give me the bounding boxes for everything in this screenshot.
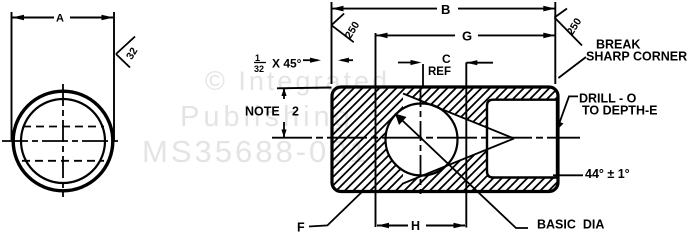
svg-text:REF: REF — [428, 66, 451, 78]
dim G line — [376, 34, 456, 36]
DRILL-O leader — [558, 96, 579, 128]
vertical centerline — [62, 84, 64, 197]
svg-text:H: H — [411, 219, 420, 233]
dim B arrows — [332, 6, 344, 12]
NOTE 2 lower arrow — [283, 122, 285, 137]
dim A line — [12, 17, 54, 19]
body hatched section — [332, 87, 558, 192]
ball (basic dia) circle — [386, 104, 458, 176]
cone cavity (drill point 44deg) — [403, 94, 514, 184]
svg-text:G: G — [462, 29, 472, 44]
svg-text:TO DEPTH-E: TO DEPTH-E — [582, 104, 657, 118]
dim A extension line right — [113, 12, 115, 140]
svg-text:44° ± 1°: 44° ± 1° — [585, 167, 630, 181]
dim A arrow left — [12, 15, 24, 21]
cone line lower — [403, 139, 514, 184]
dim H line left — [377, 225, 408, 227]
dim A arrow right — [102, 15, 114, 21]
dim B line — [332, 8, 438, 10]
surface finish 250 check left — [331, 14, 353, 43]
BREAK SHARP CORNER leader — [558, 57, 586, 78]
dim A extension line left — [11, 12, 13, 140]
cone line upper — [403, 94, 514, 139]
hidden line (drill hole top) — [23, 126, 104, 128]
svg-text:NOTE: NOTE — [245, 105, 280, 119]
svg-text:1: 1 — [255, 53, 260, 63]
horizontal centerline — [2, 140, 121, 142]
dim C REF arrow left — [398, 62, 418, 64]
dim G extension left (runs through body to H dim) — [375, 33, 377, 227]
dim C REF arrow right — [466, 62, 493, 64]
dim H line right — [426, 225, 465, 227]
svg-text:C: C — [442, 52, 451, 66]
svg-text:X 45°: X 45° — [272, 57, 302, 71]
chamfer arrow right-pointing — [303, 59, 318, 61]
surface finish 32 check — [116, 37, 135, 68]
44 deg leader — [553, 174, 583, 176]
NOTE 2 top line — [277, 87, 332, 90]
svg-text:SHARP CORNER: SHARP CORNER — [586, 50, 687, 64]
hidden line (drill hole bottom) — [22, 160, 104, 162]
NOTE 2 upper arrow — [283, 88, 285, 99]
vertical centerline (ball) — [420, 87, 422, 194]
svg-text:BASIC DIA: BASIC DIA — [537, 218, 604, 232]
drilled hole O — [487, 100, 557, 178]
dim C extension right (runs through body to H dim) — [465, 63, 467, 228]
dim B extension right — [554, 2, 556, 84]
svg-text:32: 32 — [254, 64, 264, 74]
svg-text:B: B — [441, 2, 450, 17]
surface finish 250 check right — [555, 9, 583, 46]
dim G arrows — [376, 33, 388, 39]
dim B extension left — [331, 2, 333, 84]
svg-text:2: 2 — [292, 105, 299, 119]
horizontal centerline — [272, 137, 580, 139]
F leader — [309, 192, 362, 226]
inner circle (chamfer edge) — [21, 99, 105, 183]
svg-text:F: F — [297, 221, 305, 235]
chamfer arrow left-pointing — [341, 59, 353, 61]
BASIC DIA leader — [395, 114, 528, 229]
svg-text:A: A — [56, 13, 64, 25]
outer circle (body OD) — [13, 91, 113, 191]
dim C extension left — [422, 64, 424, 86]
